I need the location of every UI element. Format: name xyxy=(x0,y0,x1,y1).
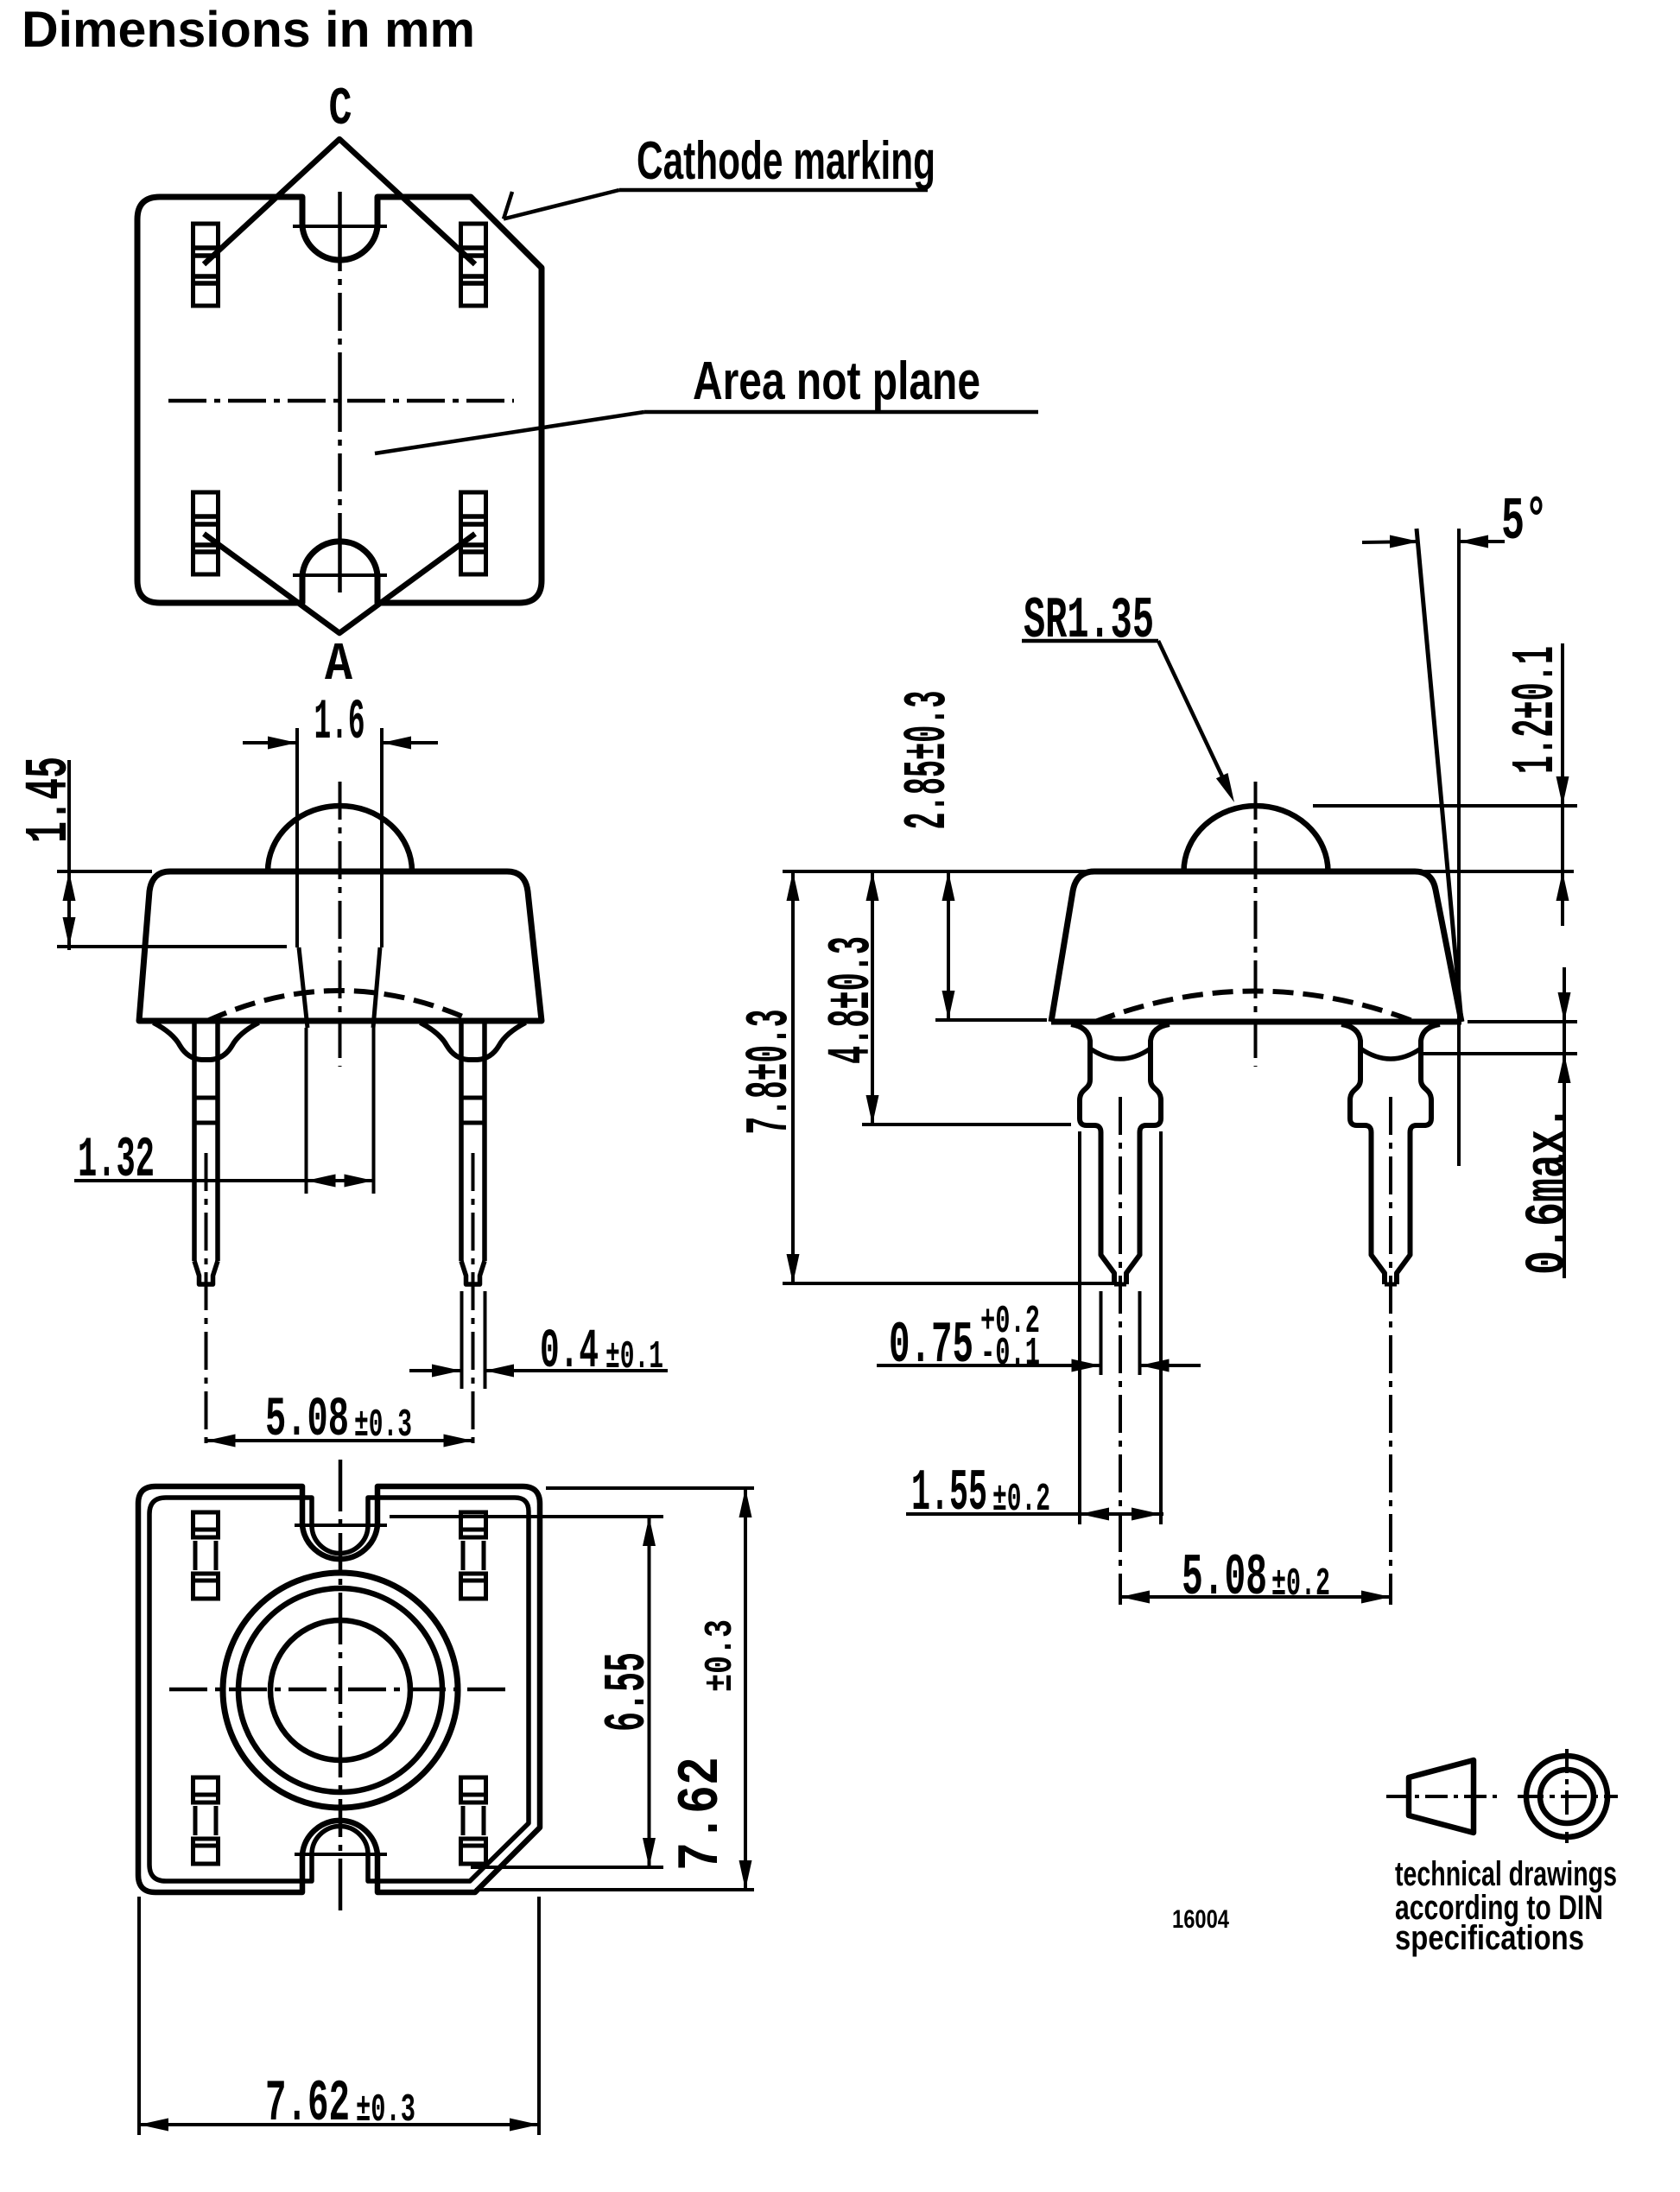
bottom view: lens flange outer circle xyxy=(223,1573,458,1808)
side view: 5 degree draft line xyxy=(1417,529,1461,1022)
dimension 0.4 +/-0.1: lead thickness xyxy=(460,1291,464,1389)
dimension 1.55 +/-0.2: lead shoulder width xyxy=(1078,1131,1081,1524)
dimension 5 degrees xyxy=(1362,542,1419,542)
top view: lead pad bottom-left (hatched) xyxy=(193,492,219,574)
front view: left lead xyxy=(154,1023,259,1060)
svg-text:specifications: specifications xyxy=(1395,1919,1584,1957)
dimension 1.2 +/-0.1: dome height xyxy=(1561,643,1564,926)
top view: vertical centerline xyxy=(338,192,342,598)
dimension 1.6: cup opening width xyxy=(295,728,299,947)
dimension 7.62 +/-0.3 vertical: package height xyxy=(546,1486,754,1490)
front view: vertical centerline xyxy=(339,782,342,1067)
svg-text:4.8±0.3: 4.8±0.3 xyxy=(819,936,887,1064)
bottom view: inner outline xyxy=(149,1498,529,1881)
dimension 7.8 +/-0.3: overall height xyxy=(783,1282,1119,1285)
top view: cathode lead marker lines to apex C xyxy=(204,139,475,264)
top view: top notch center mark xyxy=(293,225,387,228)
dimension 6.55: pad field height xyxy=(390,1515,663,1518)
top view: horizontal centerline xyxy=(168,399,514,403)
svg-text:Cathode marking: Cathode marking xyxy=(637,131,935,191)
svg-text:C: C xyxy=(329,79,352,140)
dimension 5.08 +/-0.3: front lead spacing xyxy=(206,1439,473,1442)
svg-text:1.45: 1.45 xyxy=(16,757,85,843)
svg-text:±0.2: ±0.2 xyxy=(1271,1562,1330,1606)
top view: anode lead marker lines to apex A xyxy=(204,534,475,633)
dimension 2.85 +/-0.3: body height xyxy=(935,1018,1047,1022)
bottom view: lead pad bottom-left xyxy=(193,1777,219,1802)
top view: lead pad top-right (hatched) xyxy=(461,224,486,306)
svg-text:±0.3: ±0.3 xyxy=(699,1619,743,1692)
svg-text:7.62: 7.62 xyxy=(265,2071,350,2138)
front view: lens dome SR1.35 xyxy=(268,806,412,871)
svg-text:SR1.35: SR1.35 xyxy=(1024,588,1154,655)
dimension 5.08 +/-0.2: side lead spacing xyxy=(1120,1595,1391,1599)
svg-text:Area not plane: Area not plane xyxy=(693,352,980,411)
svg-text:1.55: 1.55 xyxy=(911,1460,987,1527)
side view: vertical centerline xyxy=(1254,782,1258,1067)
svg-text:0.75: 0.75 xyxy=(889,1313,973,1379)
bottom view: vertical centerline xyxy=(339,1460,343,1916)
bottom view: lens circle xyxy=(270,1620,410,1760)
front view: hidden curved surface (dashed arc) xyxy=(207,991,472,1021)
front view: reflector cup side lines xyxy=(299,947,307,1028)
target symbol vertical centerline xyxy=(1565,1749,1569,1843)
top view: lead pad top-left (hatched) xyxy=(193,224,219,306)
side view: hidden curved surface (dashed arc) xyxy=(1095,991,1415,1023)
svg-text:-0.1: -0.1 xyxy=(980,1332,1040,1376)
shared extension line at package top face xyxy=(783,870,1574,873)
bottom view: top notch center mark xyxy=(295,1524,387,1527)
side view: body bottom edge xyxy=(1051,1019,1461,1025)
dimension 4.8 +/-0.3: height to lead step xyxy=(862,1123,1071,1126)
dimension 7.62 +/-0.3 horizontal: package width xyxy=(137,1897,141,2135)
first-angle projection symbol: target circles xyxy=(1526,1756,1607,1837)
bottom view: lead pad top-left xyxy=(193,1512,219,1537)
side view: lens dome SR1.35 xyxy=(1184,806,1328,871)
bottom view: bottom notch center mark xyxy=(295,1853,387,1856)
svg-text:5.08: 5.08 xyxy=(1182,1545,1267,1612)
svg-text:±0.1: ±0.1 xyxy=(605,1335,663,1379)
svg-text:7.62: 7.62 xyxy=(669,1757,735,1871)
target symbol horizontal centerline xyxy=(1518,1795,1618,1798)
side view: left lead xyxy=(1071,1024,1114,1284)
bottom view: horizontal centerline xyxy=(169,1688,512,1692)
top view: bottom notch center mark xyxy=(293,573,387,577)
svg-text:±0.3: ±0.3 xyxy=(354,1403,412,1448)
front view: body outline xyxy=(139,871,542,1021)
svg-text:5.08: 5.08 xyxy=(265,1390,349,1452)
bottom view: outer outline with chamfer and notches xyxy=(138,1486,540,1892)
side view: right lead xyxy=(1341,1024,1385,1284)
svg-text:2.85±0.3: 2.85±0.3 xyxy=(895,691,963,830)
top view: package outline with cathode chamfer and half-round notches xyxy=(137,197,542,603)
svg-text:Dimensions in mm: Dimensions in mm xyxy=(22,2,475,58)
svg-text:±0.3: ±0.3 xyxy=(356,2088,415,2132)
svg-text:0.4: 0.4 xyxy=(540,1321,599,1384)
svg-text:16004: 16004 xyxy=(1172,1905,1229,1934)
projection symbol centerline xyxy=(1386,1795,1500,1798)
svg-text:6.55: 6.55 xyxy=(595,1652,662,1732)
svg-text:1.2±0.1: 1.2±0.1 xyxy=(1503,646,1571,774)
svg-text:0.6max.: 0.6max. xyxy=(1516,1106,1581,1275)
bottom view: lens flange inner circle xyxy=(238,1588,442,1792)
svg-text:1.6: 1.6 xyxy=(314,690,365,755)
side view: vertical reference line for draft angle xyxy=(1457,529,1461,1166)
svg-text:±0.2: ±0.2 xyxy=(992,1478,1050,1522)
svg-text:A: A xyxy=(325,634,353,695)
svg-text:1.32: 1.32 xyxy=(78,1128,155,1193)
svg-text:technical drawings: technical drawings xyxy=(1395,1855,1617,1893)
dimension 1.32: cup bottom width xyxy=(305,1028,308,1194)
bottom view: lead pad bottom-right xyxy=(461,1777,486,1802)
bottom view: lead pad top-right xyxy=(461,1512,486,1537)
extension line at dome top xyxy=(1313,804,1577,808)
side view: body outline xyxy=(1051,871,1461,1022)
dimension 0.6 max: standoff xyxy=(1468,1020,1577,1023)
first-angle projection symbol: truncated cone xyxy=(1409,1760,1474,1833)
svg-text:5°: 5° xyxy=(1501,489,1548,557)
dimension 0.75 +0.2/-0.1: lead width xyxy=(1100,1291,1103,1375)
top view: lead pad bottom-right (hatched) xyxy=(461,492,486,574)
front view: right lead xyxy=(421,1023,526,1060)
svg-text:7.8±0.3: 7.8±0.3 xyxy=(737,1010,805,1135)
